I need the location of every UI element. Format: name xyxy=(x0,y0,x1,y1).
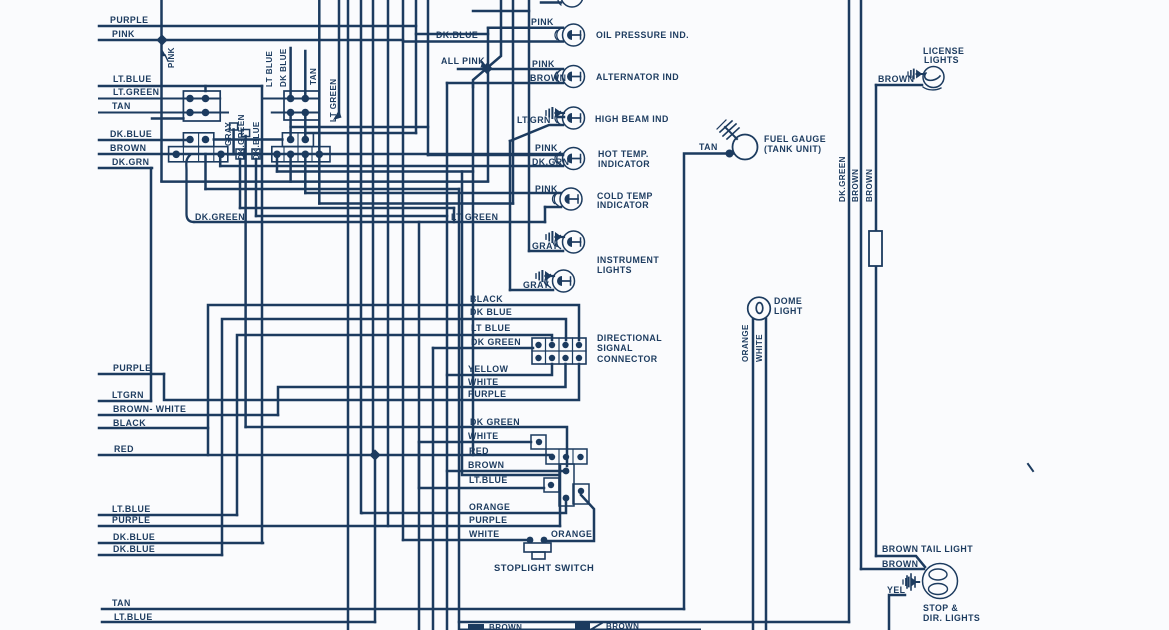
wire LT.BLUE xyxy=(99,85,262,88)
svg-text:RED: RED xyxy=(469,446,489,456)
svg-text:BROWN: BROWN xyxy=(878,74,914,84)
wire allpink arrow xyxy=(481,62,485,66)
wire PINK hot xyxy=(428,154,563,157)
wire spine x459 xyxy=(458,189,461,630)
svg-text:PURPLE: PURPLE xyxy=(468,389,506,399)
wire BROWN light switch xyxy=(447,470,566,473)
icon high beam arrow xyxy=(546,108,564,118)
wire PINK alternator xyxy=(458,68,563,71)
wire PINK (top left) xyxy=(99,39,403,42)
connector white box xyxy=(531,435,546,449)
svg-text:LT.GREEN: LT.GREEN xyxy=(113,87,159,97)
wire x419 white-ltblue link xyxy=(418,442,421,488)
svg-text:LT.BLUE: LT.BLUE xyxy=(469,475,508,485)
svg-text:BROWN: BROWN xyxy=(468,460,504,470)
wire purple up into switch xyxy=(559,466,562,526)
wire spine x433 xyxy=(432,348,435,630)
connector bottom inline 1 xyxy=(468,624,484,630)
wire x462 into switch xyxy=(462,172,559,476)
wire dome white xyxy=(765,319,768,630)
svg-text:PINK: PINK xyxy=(535,143,558,153)
bulb alternator xyxy=(555,66,585,88)
connector block B2 upper xyxy=(282,133,313,147)
svg-text:BLACK: BLACK xyxy=(113,418,146,428)
icon instrument arrow 1 xyxy=(546,232,564,242)
wire LT GREEN vertical xyxy=(338,0,341,114)
wire mesh y189 xyxy=(206,188,460,191)
svg-text:TAN: TAN xyxy=(309,68,318,85)
wire A2 row2 internal xyxy=(272,112,320,114)
wire mesh y203 xyxy=(319,202,513,205)
wire DK GRN hot xyxy=(220,165,563,168)
svg-text:LIGHT: LIGHT xyxy=(774,306,803,316)
wire jog y11 xyxy=(473,10,529,13)
bulb high beam xyxy=(555,107,585,129)
component fuse on brown trunk xyxy=(869,231,882,266)
wire orange ls wire xyxy=(544,495,594,541)
wire mesh y133 xyxy=(305,132,416,135)
bulb instrument 2 xyxy=(545,270,575,292)
wire PINK oil xyxy=(488,26,563,29)
svg-text:BROWN: BROWN xyxy=(882,559,918,569)
wire pink oil drop x488 xyxy=(487,28,490,181)
svg-text:OIL PRESSURE IND.: OIL PRESSURE IND. xyxy=(596,30,689,40)
component dome light xyxy=(748,297,771,320)
wire GRAY vertical xyxy=(232,130,235,155)
wire GRAY lamp2 xyxy=(510,289,553,292)
wire BLACK left xyxy=(99,427,208,430)
connector bottom inline 2 xyxy=(575,623,590,630)
wire mesh y216 xyxy=(256,215,447,218)
svg-text:DK.BLUE: DK.BLUE xyxy=(436,30,478,40)
wire WHITE directional xyxy=(278,364,566,415)
wire LT.BLUE bottom2 xyxy=(102,621,375,624)
wire mesh drop x454 xyxy=(453,208,456,222)
wire x529 drop xyxy=(528,0,531,251)
connector block B1 wide row xyxy=(169,147,228,162)
wire spine x388 xyxy=(387,0,390,526)
wire bottom edge stub line xyxy=(460,629,700,630)
icon tail arrow xyxy=(903,578,919,587)
wire BROWN tail 1 xyxy=(876,556,925,567)
wire PURPLE directional xyxy=(164,364,579,400)
svg-text:HIGH BEAM IND: HIGH BEAM IND xyxy=(595,114,669,124)
wire WHITE stoplight xyxy=(403,539,530,542)
svg-text:CONNECTOR: CONNECTOR xyxy=(597,354,658,364)
wire PINK cold xyxy=(305,192,561,195)
wire pink vertical spine xyxy=(160,0,163,181)
svg-text:BLACK: BLACK xyxy=(470,294,503,304)
svg-text:WHITE: WHITE xyxy=(468,431,499,441)
wire dome orange xyxy=(752,319,755,630)
svg-text:DK BLUE: DK BLUE xyxy=(470,307,512,317)
wire DK GREEN light switch xyxy=(246,427,567,466)
wire DK GREEN directional xyxy=(433,347,533,350)
wire dk.grn vertical to ltgrn xyxy=(150,168,153,401)
node light switch lower dot xyxy=(563,495,570,502)
wire spine x512 xyxy=(512,0,515,204)
node brown ls dot xyxy=(563,468,570,475)
wire A2 row1 internal xyxy=(262,98,319,100)
bulb hot temp xyxy=(555,148,585,170)
component stoplight switch xyxy=(527,537,534,544)
svg-text:DK.BLUE: DK.BLUE xyxy=(113,544,155,554)
wire DK BLUE vertical xyxy=(261,86,264,543)
wire mesh drop x305 cold feed xyxy=(304,154,307,193)
wire spine x403 xyxy=(402,0,405,540)
svg-text:ORANGE: ORANGE xyxy=(469,502,510,512)
icon instrument arrow 2 xyxy=(536,271,554,281)
svg-text:BROWN: BROWN xyxy=(882,544,918,554)
wire cold bulb bottom lead xyxy=(545,206,561,209)
component tail hatch xyxy=(907,574,915,590)
wire GRAY lamp1 xyxy=(529,250,563,253)
wire BLACK directional xyxy=(208,305,579,455)
svg-text:DK.BLUE: DK.BLUE xyxy=(252,121,261,160)
connector block B2 wide row xyxy=(272,147,330,162)
svg-text:DOME: DOME xyxy=(774,296,802,306)
connector directional signal xyxy=(532,338,586,364)
bulb partial top edge xyxy=(561,0,583,7)
wire high beam top lead xyxy=(558,116,564,119)
connector light switch right box xyxy=(573,484,589,504)
wire TAN vertical xyxy=(318,0,321,154)
svg-text:PINK: PINK xyxy=(535,184,558,194)
wire BROWN-WHITE xyxy=(99,414,278,417)
svg-text:YELLOW: YELLOW xyxy=(468,364,509,374)
svg-text:RED: RED xyxy=(114,444,134,454)
wire YELLOW directional xyxy=(447,364,552,375)
svg-text:LT.BLUE: LT.BLUE xyxy=(112,504,151,514)
wire DK BLUE directional xyxy=(222,319,566,555)
wire mesh drop x220 hot feed xyxy=(219,154,222,166)
component license lamp xyxy=(923,67,944,88)
svg-text:BROWN- WHITE: BROWN- WHITE xyxy=(113,404,186,414)
svg-text:INDICATOR: INDICATOR xyxy=(597,200,649,210)
bulb oil pressure xyxy=(555,24,585,46)
wire inline-a drop xyxy=(239,159,242,208)
svg-text:BROWN: BROWN xyxy=(530,73,566,83)
svg-text:LT.GRN: LT.GRN xyxy=(517,115,551,125)
node tan gauge dot xyxy=(726,150,734,158)
wire mesh drop x205 xyxy=(204,154,207,189)
connector top of dkgreen vert xyxy=(242,130,250,137)
wire BROWN tail 2 xyxy=(861,568,924,571)
wire spine x419 xyxy=(418,222,421,630)
wire purple corner x416 xyxy=(415,0,418,133)
svg-text:YEL: YEL xyxy=(887,585,906,595)
wire DK.BLUE to oil bulb xyxy=(403,40,563,43)
wire A2 to B2 left xyxy=(289,113,292,140)
wire spine x373 xyxy=(372,0,375,455)
svg-text:HOT TEMP.: HOT TEMP. xyxy=(598,149,649,159)
svg-text:DK.GREEN: DK.GREEN xyxy=(838,156,847,202)
svg-text:PINK: PINK xyxy=(112,29,135,39)
wire mesh y171 xyxy=(277,170,473,173)
svg-text:ALL PINK: ALL PINK xyxy=(441,56,485,66)
svg-text:PURPLE: PURPLE xyxy=(113,363,151,373)
svg-text:TAN: TAN xyxy=(699,142,718,152)
wire x510 down xyxy=(509,141,512,290)
svg-text:DK GREEN: DK GREEN xyxy=(471,337,521,347)
component tail light xyxy=(923,564,958,599)
wire mesh y181 xyxy=(162,180,489,183)
svg-text:DIR. LIGHTS: DIR. LIGHTS xyxy=(923,613,980,623)
mark small tick right xyxy=(1028,464,1033,471)
wire LT GRN diagonal xyxy=(510,125,563,141)
wire PURPLE mid-left xyxy=(99,373,164,376)
wire B1 to B2 upper link xyxy=(214,138,283,141)
wire PURPLE bottom long xyxy=(99,525,560,528)
wire DK.GREEN / LT GREEN line xyxy=(194,221,545,224)
wire trunk BROWN 2 xyxy=(875,85,878,556)
node ALL PINK junction xyxy=(481,63,492,74)
wire TAN bottom xyxy=(102,608,684,611)
wire top bulb lead y4 xyxy=(541,1,561,4)
svg-text:WHITE: WHITE xyxy=(755,334,764,362)
wire DK.BLUE xyxy=(99,139,190,142)
svg-text:LIGHTS: LIGHTS xyxy=(924,55,959,65)
bulb instrument 1 xyxy=(555,231,585,253)
wire purple jog y34 xyxy=(416,33,488,36)
wire pink arrow xyxy=(161,50,167,57)
connector block B1 upper xyxy=(183,133,213,147)
wire YEL xyxy=(889,595,905,630)
svg-text:TAIL LIGHT: TAIL LIGHT xyxy=(921,544,973,554)
svg-text:BROWN: BROWN xyxy=(489,623,522,630)
connector top of gray xyxy=(230,123,238,130)
node PINK junction xyxy=(156,34,167,45)
wire LT.BLUE bottom1 xyxy=(99,514,237,517)
wire mesh drop x290 xyxy=(289,154,292,182)
svg-text:LIGHTS: LIGHTS xyxy=(597,265,632,275)
svg-text:ALTERNATOR IND: ALTERNATOR IND xyxy=(596,72,679,82)
wire stub near dkblue label xyxy=(152,117,183,120)
connector red row box xyxy=(546,449,587,464)
wire mesh drop x319 xyxy=(318,154,321,204)
wire A1 row2 internal xyxy=(99,112,228,114)
svg-text:LT BLUE: LT BLUE xyxy=(471,323,511,333)
svg-text:GRAY: GRAY xyxy=(224,122,233,146)
svg-text:INSTRUMENT: INSTRUMENT xyxy=(597,255,659,265)
svg-text:DK.GREEN: DK.GREEN xyxy=(237,114,246,160)
svg-text:PINK: PINK xyxy=(531,17,554,27)
wire curve from B1 dot to dkgreen line xyxy=(186,155,194,222)
svg-text:STOPLIGHT SWITCH: STOPLIGHT SWITCH xyxy=(494,562,594,573)
svg-text:DK GREEN: DK GREEN xyxy=(470,417,520,427)
svg-text:DK.GRN: DK.GRN xyxy=(112,157,149,167)
svg-text:PURPLE: PURPLE xyxy=(469,515,507,525)
wire A1 row1 internal xyxy=(99,98,220,100)
svg-text:STOP &: STOP & xyxy=(923,603,958,613)
svg-text:FUEL GAUGE: FUEL GAUGE xyxy=(764,134,826,144)
svg-text:BROWN: BROWN xyxy=(851,169,860,202)
wire BROWN alternator xyxy=(447,82,563,85)
wire spine x428 xyxy=(427,0,430,155)
svg-text:DIRECTIONAL: DIRECTIONAL xyxy=(597,333,662,343)
svg-text:DK.BLUE: DK.BLUE xyxy=(110,129,152,139)
wire inline-b drop xyxy=(255,159,258,216)
wire trunk DK GREEN xyxy=(848,0,851,622)
wire WHITE light switch xyxy=(419,441,531,444)
wire BROWN license xyxy=(876,84,922,87)
svg-text:PINK: PINK xyxy=(167,47,176,68)
wire spine x361 xyxy=(360,0,363,513)
svg-text:LT.BLUE: LT.BLUE xyxy=(114,612,153,622)
wire orange from switch xyxy=(362,498,566,513)
connector block A1 xyxy=(183,91,220,121)
wire lt green arrow hook xyxy=(333,110,342,120)
connector light switch body xyxy=(559,464,574,506)
wire trunk BROWN 1 xyxy=(860,0,863,569)
wire TAN to fuel gauge xyxy=(684,154,733,610)
svg-text:BROWN: BROWN xyxy=(865,169,874,202)
wire mesh y208 xyxy=(240,207,454,210)
connector block A2 xyxy=(284,91,319,120)
wire BROWN row xyxy=(99,153,563,156)
svg-text:DK BLUE: DK BLUE xyxy=(279,48,288,87)
wire PURPLE (top left) xyxy=(99,25,416,28)
wire spine x447 xyxy=(446,83,449,630)
wire DK BLUE short vertical xyxy=(304,51,307,99)
wire spine x348 xyxy=(347,0,350,630)
wire LT BLUE directional xyxy=(237,335,552,515)
wire cold-to-ltgreen vertical xyxy=(544,207,547,222)
icon license arrow xyxy=(908,70,924,79)
svg-text:WHITE: WHITE xyxy=(468,377,499,387)
wire mesh drop x277 xyxy=(276,154,279,172)
connector ltblue box xyxy=(544,478,559,492)
svg-text:LT.BLUE: LT.BLUE xyxy=(113,74,152,84)
wire DK.BLUE bottom2 xyxy=(99,554,222,557)
svg-text:ORANGE: ORANGE xyxy=(551,529,592,539)
component fuel gauge ground xyxy=(725,127,737,139)
wire DK.GRN xyxy=(99,167,152,170)
svg-text:TAN: TAN xyxy=(112,101,131,111)
wire LTGRN mid-left xyxy=(99,400,151,403)
svg-text:SIGNAL: SIGNAL xyxy=(597,343,633,353)
svg-text:BROWN: BROWN xyxy=(606,622,639,630)
svg-text:WHITE: WHITE xyxy=(469,529,500,539)
wire LT BLUE short vertical xyxy=(289,48,292,99)
inline connector a on brown row xyxy=(236,149,244,159)
wire DK GREEN vertical xyxy=(244,136,247,427)
bulb cold temp xyxy=(552,188,582,210)
svg-text:INDICATOR: INDICATOR xyxy=(598,159,650,169)
svg-text:ORANGE: ORANGE xyxy=(741,324,750,362)
wire A1 top tap xyxy=(204,86,207,91)
wire x473 down from diagonal xyxy=(472,85,475,455)
wire spine x375 lower xyxy=(374,455,377,622)
wire DK.BLUE bottom1 xyxy=(99,542,263,545)
inline connector b on brown row xyxy=(252,149,260,159)
svg-text:BROWN: BROWN xyxy=(110,143,146,153)
wire RED xyxy=(99,454,552,457)
wire orange corner x362 xyxy=(361,512,364,515)
svg-text:DK.BLUE: DK.BLUE xyxy=(113,532,155,542)
svg-text:PINK: PINK xyxy=(532,59,555,69)
svg-text:LT BLUE: LT BLUE xyxy=(265,50,274,87)
svg-text:LTGRN: LTGRN xyxy=(112,390,144,400)
wire mesh y127 xyxy=(291,126,428,129)
wire LT.BLUE light switch xyxy=(419,487,544,490)
svg-text:PURPLE: PURPLE xyxy=(112,515,150,525)
wire spine x501 + ALL PINK diagonal xyxy=(473,0,501,87)
node junction red/x375 xyxy=(369,449,380,460)
component fuel gauge xyxy=(733,135,758,160)
svg-text:TAN: TAN xyxy=(112,598,131,608)
svg-text:(TANK UNIT): (TANK UNIT) xyxy=(764,144,822,154)
wire bottom brown long xyxy=(459,621,849,624)
wire A2 to B2 right xyxy=(304,113,307,140)
svg-text:DK.GREEN: DK.GREEN xyxy=(195,212,245,222)
svg-text:PURPLE: PURPLE xyxy=(110,15,148,25)
